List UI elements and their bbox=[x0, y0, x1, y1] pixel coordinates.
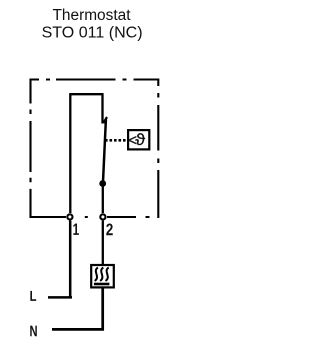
svg-text:Thermostat: Thermostat bbox=[53, 7, 132, 24]
svg-text:STO 011 (NC): STO 011 (NC) bbox=[42, 25, 143, 42]
